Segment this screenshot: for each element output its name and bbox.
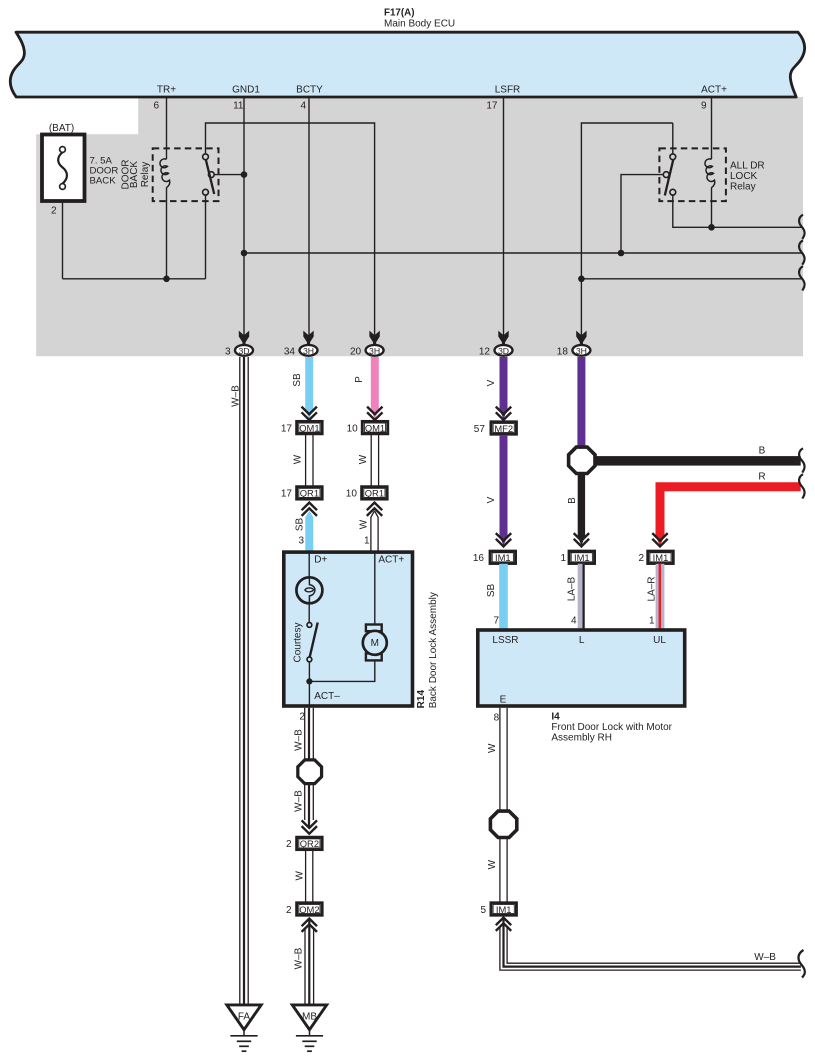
wire W-B pin2 to splice [304,708,306,760]
svg-text:D+: D+ [314,555,327,566]
svg-text:W–B: W–B [294,947,305,969]
wire LA-B IM1 to I4 pin4 [578,564,585,629]
connector IM1 pin5 [491,903,517,915]
svg-text:IM1: IM1 [574,552,590,563]
wire W-B QM2 to ground MB [304,928,306,1005]
fuse F1 7.5A DOOR BACK body [42,135,85,202]
svg-text:W: W [292,454,303,464]
svg-text:3H: 3H [369,346,380,356]
wire relay2 switch top up [672,123,674,157]
splice J3 [490,811,516,837]
connector QR1 pin17 [297,487,323,499]
svg-text:UL: UL [653,635,666,646]
connector QR1 pin10 [362,487,388,499]
svg-text:W–B: W–B [231,385,242,407]
svg-text:18: 18 [557,346,569,357]
relay K1 DOOR BACK Relay dashed box [153,148,219,201]
svg-text:MB: MB [302,1012,317,1023]
svg-text:7: 7 [493,616,499,627]
wire SB QR1 to R14 pin3 [305,511,313,551]
wire TR+ pin6 to relay coil [166,97,168,159]
svg-text:3D: 3D [498,346,509,356]
wire bus y253 GND1 to right break [244,252,802,254]
arrow into QM1 [302,407,317,420]
svg-text:Relay: Relay [140,162,151,188]
junction relay2 coil / bus y227 [708,224,715,231]
wire battery bus y279 left [63,278,206,280]
junction 3H18 feeder / bus y279 [578,276,585,283]
svg-text:IM1: IM1 [653,552,669,563]
svg-text:(BAT): (BAT) [49,123,74,134]
junction ACT- node [306,678,312,684]
connector IM1 pin1 [569,551,595,563]
svg-text:4: 4 [300,101,306,112]
svg-text:IM1: IM1 [495,552,511,563]
relay K2 coil [705,159,715,188]
arrow into IM1 [574,533,589,546]
arrow out of IM1 [496,918,511,931]
connector 3D pin12 [498,331,508,346]
wire W QM1-QR1 [305,435,307,486]
connector IM1 pin2 [648,551,674,563]
break symbol wire W-B [798,950,804,978]
svg-text:17: 17 [281,423,293,434]
svg-text:LA–B: LA–B [566,576,577,601]
svg-text:FA: FA [238,1012,251,1023]
wire V MF2 to IM1 [500,435,508,546]
svg-text:10: 10 [347,423,359,434]
svg-text:57: 57 [474,424,486,435]
svg-text:8: 8 [494,713,500,724]
svg-text:P: P [354,376,365,383]
svg-text:Relay: Relay [730,182,756,193]
svg-text:2: 2 [286,839,292,850]
wire W pin E to splice [499,708,501,812]
connector MF2 pin57 [491,422,517,434]
arrow into MF2 [496,407,511,420]
motor M1 [366,625,382,632]
relay K1 switch [203,154,209,160]
svg-text:W–B: W–B [294,790,305,812]
svg-text:2: 2 [51,206,57,217]
svg-text:ACT–: ACT– [314,691,340,702]
svg-text:3: 3 [298,536,304,547]
svg-text:QR2: QR2 [300,838,319,849]
component R14 Back Door Lock Assembly box [284,552,413,706]
connector IM1 pin16 [490,551,516,563]
svg-text:Back Door Lock Assembly: Back Door Lock Assembly [428,592,439,708]
break symbol wire R [799,474,804,498]
svg-text:W: W [487,859,498,869]
svg-text:Courtesy: Courtesy [292,622,303,662]
svg-text:3: 3 [225,346,231,357]
wire pin3 to lamp [308,552,310,579]
wire pin1 to motor [374,552,376,626]
lamp courtesy light [296,577,322,603]
svg-text:2: 2 [286,905,292,916]
svg-text:R14: R14 [416,690,427,709]
wire W QM1-QR1 [370,435,372,486]
wire fuse down [62,189,64,279]
svg-text:12: 12 [479,346,491,357]
wire relay1 switch bottom down to bus y279 [205,193,207,279]
ground FA [227,1005,261,1030]
connector QM1 pin17 [297,421,323,433]
ECU U1 F17(A) Main Body ECU band [10,32,804,97]
svg-text:LA–R: LA–R [647,576,658,601]
svg-text:1: 1 [649,616,655,627]
ground MB [292,1005,326,1030]
svg-text:B: B [759,446,766,457]
wire lamp to switch [308,603,310,623]
relay K2 switch [670,154,676,160]
svg-text:QM1: QM1 [299,422,319,433]
connector QM2 pin2 [297,903,323,915]
svg-text:1: 1 [560,553,566,564]
arrow out of QR1 [302,503,317,516]
connector 3H pin18 [576,331,586,346]
svg-text:V: V [486,379,497,386]
relay K2 ALL DR LOCK Relay dashed box [659,148,726,201]
svg-text:B: B [567,497,578,504]
svg-text:3H: 3H [303,346,314,356]
svg-text:9: 9 [701,101,707,112]
svg-text:QM2: QM2 [299,904,319,915]
arrow out of QR1 [367,503,382,516]
wire bus y279 right segment [581,278,801,280]
svg-text:W–B: W–B [294,729,305,751]
wire LA-R IM1 to I4 pin1 [656,564,665,629]
svg-text:BACK: BACK [90,176,117,187]
wire W-B IM1 to right break [500,926,801,970]
connector 3D pin3 [239,331,249,346]
svg-text:SB: SB [486,584,497,598]
splice J1 [569,447,595,473]
wire LSFR pin17 down to connector 3D [503,97,505,340]
wire ACT- node to motor [309,660,374,681]
connector QM1 pin10 [362,421,388,433]
wire W splice to IM1 [499,837,501,902]
wire BCTY pin4 down to connector 3H [308,97,310,340]
arrow into QM1 [367,407,382,420]
svg-text:QM1: QM1 [365,422,385,433]
wire B splice to right break [585,456,801,466]
svg-text:LOCK: LOCK [730,171,758,182]
component I4 Front Door Lock with Motor Assembly RH box [478,630,685,706]
connector 3H pin20 [369,331,379,346]
wire relay2 common left and down to bus y253 [621,175,663,253]
svg-text:W–B: W–B [754,952,776,963]
svg-text:6: 6 [153,101,159,112]
wire B splice down to IM1 [578,472,585,546]
svg-text:F17(A): F17(A) [384,8,414,19]
svg-text:BACK: BACK [129,161,140,189]
svg-text:3H: 3H [576,346,587,356]
svg-text:IM1: IM1 [496,904,512,915]
svg-text:17: 17 [486,101,498,112]
arrow out of QM2 [302,919,317,932]
svg-text:W: W [294,870,305,880]
arrow into IM1 [652,533,667,546]
wire W QR2-QM2 [305,851,307,902]
svg-text:E: E [500,695,507,706]
svg-text:QR1: QR1 [300,488,319,499]
svg-text:ACT+: ACT+ [378,555,404,566]
svg-text:20: 20 [350,346,362,357]
svg-text:V: V [486,496,497,503]
wire relay1 common to GND1 node [214,174,245,176]
wire SB from 3H-34 [305,357,313,419]
wire W-B from 3D-3 to ground FA [239,357,241,1005]
wire ACT+ pin9 to relay coil [711,97,713,159]
relay K1 coil [160,159,170,188]
svg-text:17: 17 [281,489,293,500]
svg-text:I4: I4 [551,712,560,723]
svg-text:R: R [758,472,765,483]
wire relay1 switch top to top bus [206,123,375,340]
svg-text:SB: SB [295,518,306,532]
svg-text:3D: 3D [238,346,249,356]
break symbol wire B [799,448,804,472]
svg-text:SB: SB [292,373,303,387]
svg-text:M: M [371,638,379,649]
svg-text:W: W [487,743,498,753]
svg-text:QR1: QR1 [365,488,384,499]
svg-text:GND1: GND1 [232,85,260,96]
wire V from 3D-12 [500,357,508,419]
wire coil to junction y227 [711,188,713,228]
svg-text:LSFR: LSFR [495,85,521,96]
wire P from 3H-20 [371,357,379,419]
svg-text:ALL DR: ALL DR [730,161,765,172]
wire 3H18 feeder vertical [581,123,672,340]
break symbol bus y253 [799,240,804,264]
break symbol bus y279 [799,266,804,290]
wire relay2 switch bottom to bus y227 [673,193,802,228]
junction relay1 common / GND1 [241,171,248,178]
arrow into QR2 [302,820,317,833]
svg-text:Assembly RH: Assembly RH [551,733,612,744]
break symbol bus y227 [799,215,804,239]
svg-text:11: 11 [233,101,244,112]
wire W-B splice to QR2 [304,784,306,820]
svg-text:BCTY: BCTY [296,85,323,96]
wire V from 3H-18 to splice [577,357,585,447]
wire switch to pin2 [308,662,310,706]
ECU internal shaded region [36,97,803,356]
svg-text:5: 5 [480,905,486,916]
svg-text:2: 2 [638,553,644,564]
connector QR2 pin2 [297,837,323,849]
svg-text:TR+: TR+ [157,85,176,96]
junction coil bottom / battery bus [163,276,170,283]
svg-text:Main Body ECU: Main Body ECU [384,19,455,30]
svg-text:L: L [579,635,585,646]
svg-text:ACT+: ACT+ [701,85,727,96]
svg-text:W: W [358,454,369,464]
svg-text:LSSR: LSSR [492,635,518,646]
fuse element [58,152,67,183]
wire SB IM1 to I4 pin7 [499,564,508,629]
wire W QR1 to R14 pin1 [371,511,378,551]
svg-text:16: 16 [473,553,485,564]
junction relay2 common / bus y253 [618,250,625,257]
junction GND1 / bus y253 [241,250,248,257]
svg-text:10: 10 [346,489,358,500]
wire R from right break [656,482,801,546]
switch Courtesy [307,623,312,628]
wire coil bottom to bus y279 [166,188,168,279]
svg-text:MF2: MF2 [494,423,513,434]
svg-text:4: 4 [571,616,577,627]
svg-text:34: 34 [284,346,296,357]
splice J2 [298,760,322,784]
svg-text:Front Door Lock with Motor: Front Door Lock with Motor [551,722,672,733]
connector 3H pin34 [303,331,313,346]
svg-text:1: 1 [364,536,370,547]
svg-text:W: W [359,519,370,529]
arrow into IM1 [496,533,511,546]
wire GND1 pin11 down to connector 3D [243,97,245,340]
